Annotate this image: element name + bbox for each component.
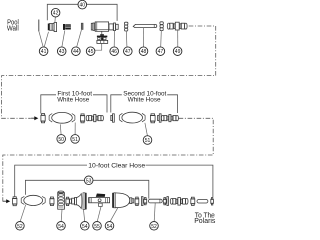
svg-text:54: 54 (82, 224, 88, 230)
svg-text:47: 47 (125, 49, 131, 55)
svg-text:55: 55 (94, 224, 100, 230)
svg-text:48: 48 (141, 49, 147, 55)
svg-text:47: 47 (158, 49, 164, 55)
svg-text:White Hose: White Hose (128, 97, 162, 104)
svg-text:41: 41 (41, 49, 47, 55)
svg-text:44: 44 (73, 49, 79, 55)
svg-text:53: 53 (86, 178, 92, 184)
svg-text:White Hose: White Hose (57, 97, 89, 104)
svg-text:51: 51 (72, 137, 78, 143)
svg-text:54: 54 (58, 224, 64, 230)
svg-text:Polaris: Polaris (194, 218, 216, 225)
svg-text:51: 51 (145, 138, 151, 144)
svg-text:54: 54 (107, 224, 113, 230)
svg-text:45: 45 (88, 49, 94, 55)
svg-text:46: 46 (111, 49, 117, 55)
svg-text:52: 52 (151, 224, 157, 230)
svg-text:42: 42 (53, 11, 59, 17)
svg-text:10-foot Clear Hose: 10-foot Clear Hose (88, 162, 145, 169)
svg-text:40: 40 (80, 3, 86, 9)
svg-text:52: 52 (17, 224, 23, 230)
svg-text:49: 49 (175, 49, 181, 55)
svg-text:50: 50 (58, 137, 64, 143)
svg-text:43: 43 (59, 49, 65, 55)
svg-text:Wall: Wall (7, 26, 19, 33)
